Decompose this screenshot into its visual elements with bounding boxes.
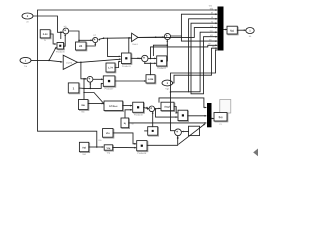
svg-text:wr: wr [26,21,29,24]
svg-text:Product7: Product7 [105,88,115,91]
svg-text:1.008: 1.008 [148,78,154,81]
wire staple loop mux row 4 down to y=93.8 and back up row 7 [191,22,217,94]
sum S4 [87,76,93,82]
transfer box Tdo [104,101,124,111]
wire rail branch up into S4 bottom [89,82,91,88]
wire P6 output to sum S3 [131,58,142,60]
svg-text:Vts: Vts [98,139,102,142]
wire saturation box output into S6 right input [182,131,189,133]
sum S5 [149,106,155,112]
gain box 24 [76,42,87,51]
svg-text:ws: ws [64,25,68,28]
constant box 1.79 [106,63,116,73]
fcn box 2 f(u) [214,113,228,126]
svg-text:Im: Im [249,35,252,38]
wire branch down from S4-left wire to y=88.4 rail [83,79,85,93]
constant box 0.43 [40,30,51,43]
wire stub from P2-out junction left and down [153,45,167,55]
svg-text:2: 2 [27,15,29,18]
wire mux row 5 elbow joining feedback line y=38 [138,27,217,38]
box Vtd [79,142,89,156]
constant box 1 [68,83,79,94]
svg-text:Vts: Vts [106,132,110,135]
svg-text:1/Tdo.s: 1/Tdo.s [109,105,118,108]
sum S3 [142,55,148,61]
inport oval 2 [20,57,31,68]
svg-text:Ct: Ct [219,123,222,126]
outport oval (Im) [246,28,254,39]
svg-text:Product5: Product5 [56,50,66,53]
wire diagonal branch to product P5 input 2 [49,47,56,61]
svg-text:1: 1 [249,30,251,33]
wire S5 branch down to product P3 input 2 [156,109,178,118]
box Mo [79,100,89,114]
integrator box under S5 [145,127,159,136]
wire S7 output up to mux row 2 [171,13,218,36]
mux1 input labels [208,4,215,48]
wire branch down into gain box 24 top [78,40,80,42]
sum S1 [63,25,69,34]
svg-text:Wr: Wr [212,46,215,49]
svg-text:Gain1: Gain1 [132,43,139,46]
svg-text:f(u): f(u) [219,116,223,119]
wire diagonal from P8 wire through saturation box into mux2 bottom input [179,124,206,145]
wire stub down from oval1-line junction [60,32,62,38]
wire branch from dot down into product P6 top [128,38,130,53]
wire Vtd output to box Vtq and big feedback up-left [89,139,104,148]
product P7 [103,76,115,91]
mux1 black bar [218,7,224,51]
wire P2 output up into S7 bottom [166,40,168,61]
wire S5 output to box Avg input [155,108,161,110]
wire S6 output up-left to mux1 row 10 [170,49,218,131]
svg-text:f(u): f(u) [230,29,234,32]
wire P0 output to sum S5 [144,107,149,110]
transfer box Avg [161,102,175,111]
wire 0.43 to product P5 input 1 [50,34,56,45]
wire Avg top tap over to mux2 input 1 [159,98,207,109]
wire S3 tap up and over to mux row 8 [151,44,218,58]
gray box behind fcn box 2 [220,100,231,114]
saturation box [189,126,200,135]
wire S4 output to product P7 input 1 [93,78,103,80]
sum S2 (Ef) [93,34,98,42]
wire P7 output to box 1.008 input [115,80,146,82]
svg-text:Product2: Product2 [157,67,167,70]
product P0 [133,102,145,116]
box Vts [103,129,114,139]
wire P8 output to sum S6 bottom [147,136,179,145]
product P2 [157,56,168,70]
wire S7 tap down to mux row 8 [181,36,217,42]
svg-text:0.43: 0.43 [43,33,48,36]
wire oval1 to sum S1 [33,16,63,33]
svg-text:Product8: Product8 [137,152,147,155]
wire P3 output to mux2 input 2 [188,115,207,117]
svg-text:Product1: Product1 [122,65,132,68]
box 1.008 [146,75,156,84]
wire oval2 to big gain triangle [31,60,63,63]
svg-text:1: 1 [25,60,27,63]
sum S7 [164,33,170,39]
wire branch down to sum S4 left [81,62,87,79]
gain triangle big (1/2H) [63,55,77,69]
corner browse arrow bottom right [253,148,258,156]
svg-text:Mo: Mo [81,104,85,107]
svg-text:Vm: Vm [209,4,212,7]
svg-text:1/(2H): 1/(2H) [66,61,72,64]
wire mux2 output to fcn box 2 [212,118,214,120]
mux2 black bar [207,103,212,127]
wire oval3 up and over to mux row 9 [173,47,218,83]
wire fcn box to outport oval [237,29,246,31]
svg-text:fs: fs [44,39,47,42]
product P6 [122,53,132,68]
svg-text:24: 24 [79,44,83,48]
wire staple loop mux row 3 down to y=91.8 and back up row 6 [171,18,218,92]
wire 1.008 output up: to S3 bottom and P2 input 2 [144,62,156,75]
wire triangle output to sum S7 [138,36,164,38]
wire integrator output up into S5 bottom [152,112,154,127]
svg-text:Vgs: Vgs [165,88,170,91]
wire box1 output to rail and product P7 input 2 [79,83,103,90]
wire Vtq output to product P8 input 2 [113,147,137,149]
svg-text:1.79: 1.79 [108,67,113,70]
wire feedback Vtd to top line and mux1 input 1 [38,9,218,147]
wire long feedback line y=38 to small gain triangle [104,37,132,39]
wire P5 output up into S1 bottom [64,34,67,46]
svg-text:Product0: Product0 [134,114,144,117]
svg-text:Vtd: Vtd [82,153,86,156]
wire S3 output to product P2 input 1 [148,58,156,60]
wire Vts output down to product P8 input 1 [113,133,136,145]
wire Avg output to product P3 input 1 [174,107,178,114]
svg-text:3: 3 [167,82,169,85]
svg-text:Vtq: Vtq [107,147,111,150]
wire 1.79 output up to product P6 input 3 [115,61,121,68]
svg-text:Vtd: Vtd [82,146,86,149]
wire feedback into sum S2 right input [98,37,104,40]
svg-text:Ef: Ef [94,34,96,37]
wire Mo output to box Tdo [88,103,104,105]
wire big triangle output slanted to product P6 input 2 [77,58,121,63]
product P3 [178,110,189,121]
box Vtq [104,145,113,155]
gain triangle small [132,33,139,46]
wire box24 output up into sum S2 bottom [86,43,96,46]
box Iq [121,118,135,129]
inport oval 3 (Vgs) [162,80,173,91]
wire Iq top up to product P0 input 2 [125,109,132,118]
sum S6 [175,129,182,136]
wire Tdo output to product P0 input 1 [123,105,133,107]
svg-text:Vtq: Vtq [107,152,111,155]
product P8 [137,141,148,156]
svg-text:Tm: Tm [24,65,27,68]
fcn box f(u) top right [227,26,238,35]
wire mux1 output to fcn box [224,29,228,31]
product P5 [56,43,66,54]
wire Iq output long to mux2 input 3 [129,122,207,124]
wire rail branch down into box Mo top and diagonal to box Tdo [83,92,105,105]
wire S1 output to sum S2 left input [69,31,93,41]
inport oval 1 (wr reference) [22,13,33,24]
wire branch down to product P6 input 1 [108,38,121,57]
